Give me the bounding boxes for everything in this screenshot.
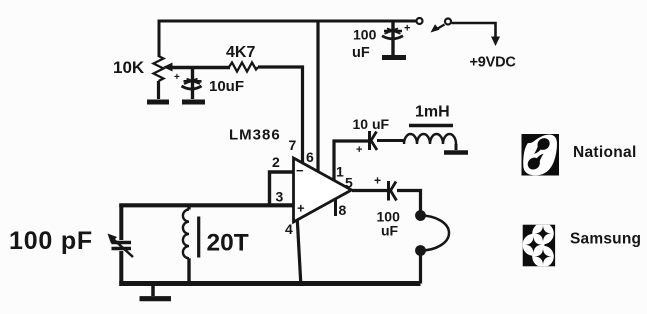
wire wiper junction to C1 [191, 67, 194, 99]
svg-text:1: 1 [336, 164, 344, 180]
inductor L1 1mH [404, 134, 456, 144]
wire cap to earphone [397, 191, 421, 213]
capacitor C2 100uF supply [391, 21, 394, 55]
wire pin 6 V+ [316, 21, 319, 172]
wire 4K7 to pin 7 [258, 67, 303, 164]
op-amp U1 LM386 [294, 158, 352, 222]
svg-text:−: − [296, 163, 304, 178]
capacitor C3 10uF output [368, 131, 371, 150]
resistor R2 4K7 [229, 63, 258, 72]
capacitor C1 10uF [184, 80, 202, 83]
output wire [352, 189, 387, 192]
inductor L2 20T [187, 205, 190, 209]
svg-text:National: National [573, 144, 637, 161]
pin 2 wire [270, 172, 294, 204]
potentiometer R1 10K [154, 56, 164, 81]
svg-text:+: + [404, 23, 410, 35]
ground C1 [182, 100, 205, 105]
earphone SP1 [415, 210, 426, 221]
svg-text:4K7: 4K7 [226, 44, 255, 61]
wire pin 1 [334, 141, 368, 180]
svg-text:100 pF: 100 pF [9, 227, 93, 255]
svg-text:+: + [356, 144, 362, 156]
svg-text:2: 2 [272, 154, 280, 170]
wire top rail and pot drop [159, 21, 416, 57]
svg-text:6: 6 [306, 149, 314, 165]
svg-text:20T: 20T [207, 230, 249, 257]
Samsung logo [523, 223, 642, 268]
ground tank [151, 285, 155, 296]
pin 4 wire [297, 220, 301, 284]
ground pot [147, 100, 169, 105]
svg-text:+9VDC: +9VDC [470, 55, 517, 71]
wire switch to +9VDC [452, 23, 496, 38]
ground C2 [382, 55, 406, 60]
switch SW1 on-off [417, 18, 423, 24]
wire cap to inductor [377, 139, 405, 142]
wire earphone to bottom rail [419, 251, 422, 284]
capacitor C4 100uF output [387, 181, 390, 201]
wire tank left [119, 205, 123, 240]
svg-text:1mH: 1mH [415, 104, 450, 121]
wire pot to ground [157, 81, 160, 99]
svg-text:uF: uF [381, 223, 399, 239]
svg-text:LM386: LM386 [229, 127, 281, 144]
svg-text:10K: 10K [113, 58, 145, 77]
svg-text:8: 8 [339, 202, 347, 218]
ground L1 [455, 144, 458, 150]
svg-text:+: + [174, 72, 180, 83]
pin 8 wire [334, 199, 337, 217]
svg-text:100: 100 [353, 27, 377, 43]
svg-text:10uF: 10uF [209, 78, 244, 95]
wire bottom rail [119, 281, 420, 286]
svg-text:+: + [297, 201, 305, 216]
svg-text:7: 7 [289, 137, 297, 153]
svg-text:Samsung: Samsung [570, 231, 641, 248]
variable capacitor C5 100 pF [112, 241, 132, 244]
svg-text:5: 5 [345, 175, 353, 191]
National logo [522, 134, 637, 176]
svg-text:4: 4 [285, 221, 293, 237]
pin 3 wire tank top [119, 203, 293, 207]
svg-text:uF: uF [352, 45, 370, 61]
svg-text:10 uF: 10 uF [353, 116, 390, 132]
svg-text:+: + [374, 174, 381, 188]
svg-text:3: 3 [276, 189, 284, 205]
